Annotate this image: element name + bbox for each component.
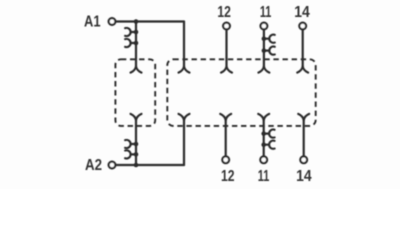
indicator module outline dashed box: [115, 59, 155, 126]
svg-text:A1: A1: [84, 14, 101, 31]
socket fork 12 top: [221, 66, 232, 72]
socket fork 14 top: [297, 66, 308, 72]
pin label 14 top: [294, 4, 310, 21]
svg-text:14: 14: [294, 4, 310, 21]
plug contact left bottom 2: [125, 150, 138, 158]
terminal A2: [109, 162, 116, 169]
wire A2 horizontal: [116, 164, 185, 166]
wire pin 12 bottom: [225, 120, 227, 156]
socket fork A2 into relay: [179, 114, 190, 120]
svg-text:A2: A2: [85, 157, 102, 174]
socket fork 11 bottom: [258, 114, 269, 120]
pin label 11 top: [260, 4, 272, 21]
wire pin 14 bottom: [303, 120, 305, 156]
plug contact left top 1: [125, 28, 138, 36]
wire A1 horizontal: [116, 20, 185, 22]
socket fork A1 into relay: [179, 66, 190, 72]
wire pin 11 bottom: [263, 120, 265, 156]
relay outline dashed box: [167, 59, 315, 126]
plug contact 11 bottom 1: [261, 130, 274, 138]
plug contact left bottom 1: [125, 140, 138, 148]
socket fork 11 top: [258, 66, 269, 72]
terminal 14 bottom: [300, 156, 307, 163]
socket fork indicator top: [131, 66, 142, 72]
terminal 12 bottom: [222, 156, 229, 163]
terminal A1: [109, 18, 116, 25]
terminal 11 bottom: [260, 156, 267, 163]
pin label 14 bottom: [296, 168, 312, 185]
terminal 14 top: [299, 23, 306, 30]
wire left column bottom: [135, 120, 137, 165]
terminal label A1: [84, 14, 101, 31]
svg-text:11: 11: [258, 168, 270, 185]
wire pin 11 top: [263, 30, 265, 67]
terminal 11 top: [261, 23, 268, 30]
wire pin 12 top: [225, 30, 227, 67]
wire pin 14 top: [302, 30, 304, 67]
plug contact 11 top 1: [262, 35, 275, 43]
terminal 12 top: [223, 23, 230, 30]
svg-text:12: 12: [217, 4, 231, 21]
plug contact 11 top 2: [262, 47, 275, 55]
plug contact left top 2: [125, 39, 138, 47]
pin label 12 bottom: [221, 168, 235, 185]
junction A1-column: [134, 19, 139, 24]
svg-text:14: 14: [296, 168, 312, 185]
socket fork 12 bottom: [220, 114, 231, 120]
socket fork indicator bottom: [131, 114, 142, 120]
plug contact 11 bottom 2: [261, 141, 274, 149]
pin label 11 bottom: [258, 168, 270, 185]
wire A1 corner down: [183, 22, 185, 67]
pin label 12 top: [217, 4, 231, 21]
terminal label A2: [85, 157, 102, 174]
svg-text:11: 11: [260, 4, 272, 21]
wire left column top: [135, 22, 137, 67]
wire A2 corner up: [183, 120, 185, 165]
junction A2-column: [134, 163, 139, 168]
socket fork 14 bottom: [298, 114, 309, 120]
svg-text:12: 12: [221, 168, 235, 185]
